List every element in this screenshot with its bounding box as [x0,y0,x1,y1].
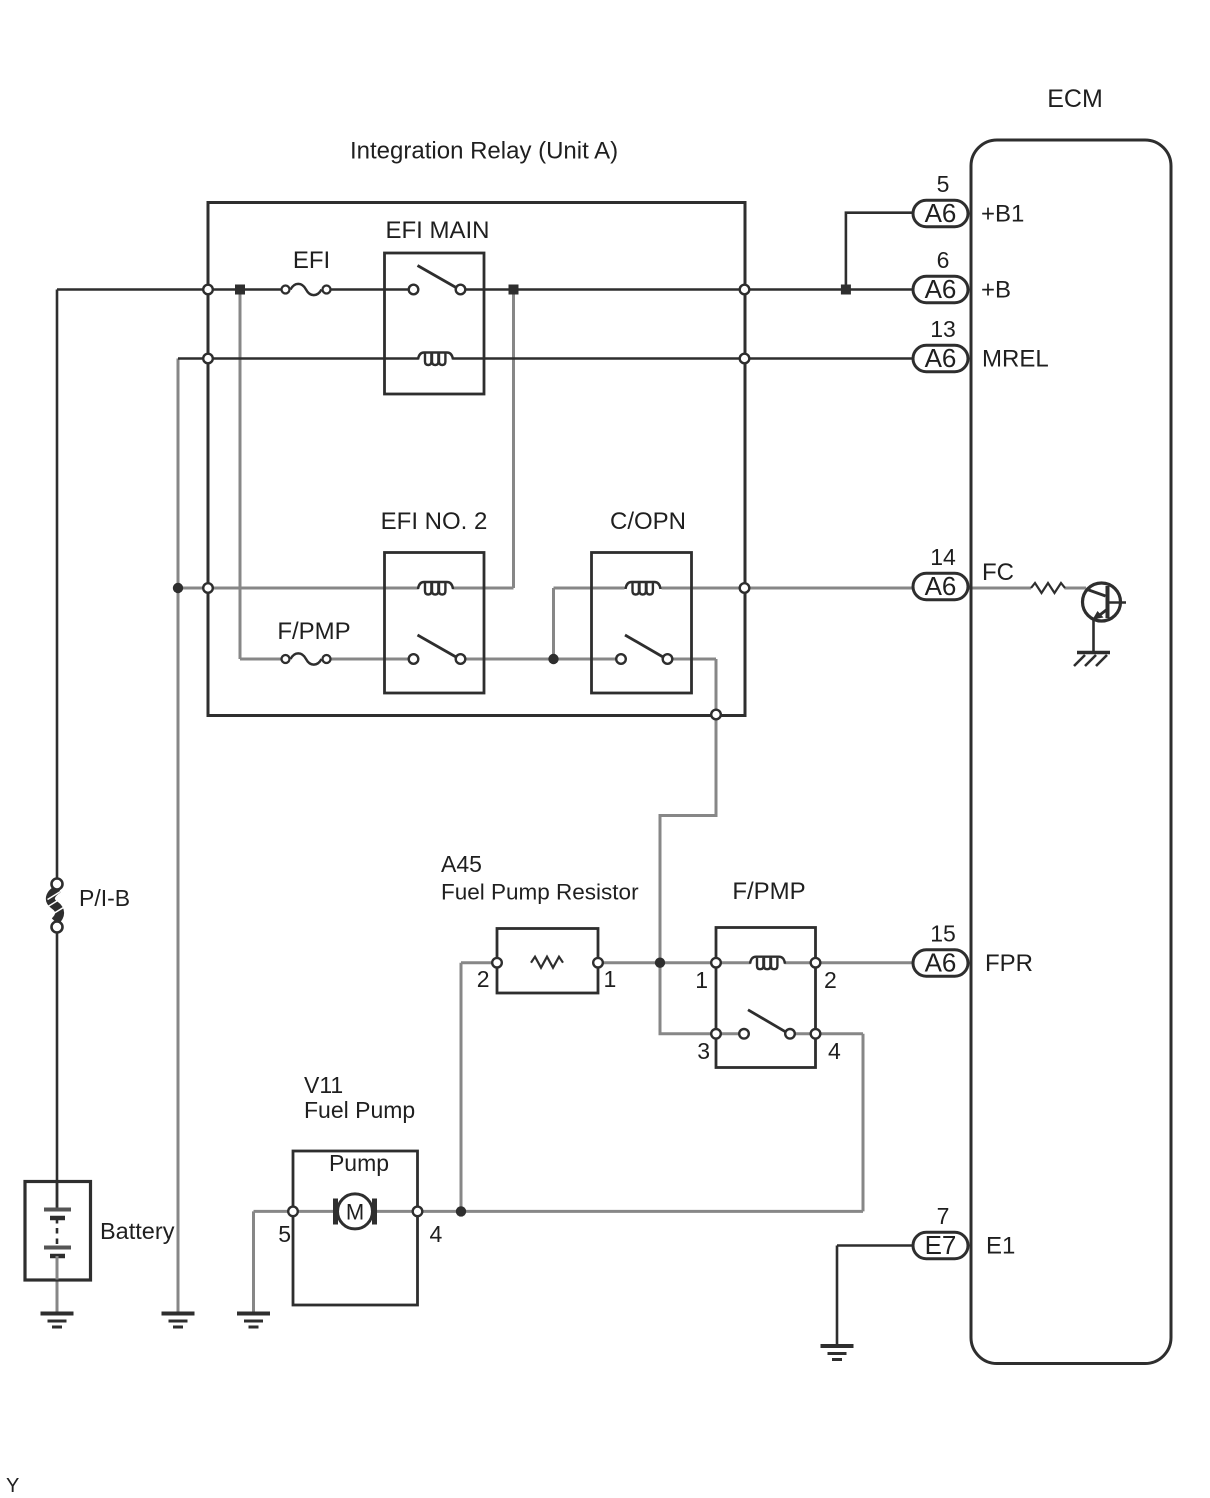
svg-text:15: 15 [930,921,956,947]
svg-text:E7: E7 [925,1230,957,1260]
svg-text:Integration Relay (Unit A): Integration Relay (Unit A) [350,138,618,165]
svg-text:A6: A6 [925,343,957,373]
svg-text:FPR: FPR [985,950,1033,977]
svg-text:13: 13 [930,316,956,342]
svg-text:2: 2 [824,967,837,993]
svg-text:14: 14 [930,544,956,570]
svg-text:4: 4 [430,1221,443,1247]
svg-text:V11: V11 [304,1072,343,1098]
svg-text:ECM: ECM [1047,85,1103,113]
svg-text:P/I-B: P/I-B [79,885,130,911]
svg-text:A6: A6 [925,198,957,228]
svg-text:EFI NO. 2: EFI NO. 2 [381,508,488,535]
svg-text:Battery: Battery [100,1218,175,1244]
svg-text:M: M [346,1200,364,1225]
svg-text:F/PMP: F/PMP [277,618,350,645]
svg-text:A45: A45 [441,851,482,877]
svg-text:A6: A6 [925,274,957,304]
svg-text:C/OPN: C/OPN [610,508,686,535]
svg-text:Fuel Pump Resistor: Fuel Pump Resistor [441,880,639,905]
svg-text:7: 7 [937,1203,950,1229]
svg-text:FC: FC [982,559,1014,586]
svg-text:EFI: EFI [293,247,330,274]
svg-text:Y: Y [6,1475,19,1497]
svg-text:Fuel Pump: Fuel Pump [304,1097,415,1123]
svg-text:5: 5 [937,171,950,197]
svg-text:A6: A6 [925,571,957,601]
svg-text:1: 1 [695,967,708,993]
svg-text:+B1: +B1 [981,201,1024,228]
svg-text:+B: +B [981,277,1011,304]
svg-text:MREL: MREL [982,346,1049,373]
svg-text:5: 5 [278,1221,291,1247]
svg-text:6: 6 [937,247,950,273]
svg-text:A6: A6 [925,948,957,978]
svg-text:Pump: Pump [329,1150,389,1176]
svg-text:F/PMP: F/PMP [732,878,805,905]
svg-text:EFI MAIN: EFI MAIN [385,217,489,244]
svg-text:3: 3 [697,1038,710,1064]
svg-text:2: 2 [477,966,490,992]
svg-text:4: 4 [828,1038,841,1064]
svg-text:E1: E1 [986,1233,1015,1260]
svg-text:1: 1 [604,966,617,992]
